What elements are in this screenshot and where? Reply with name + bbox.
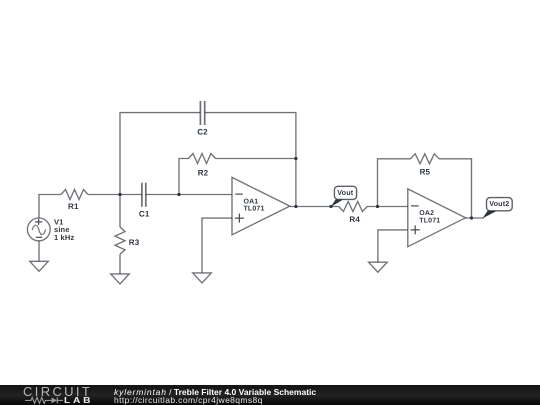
svg-text:Vout: Vout bbox=[337, 188, 353, 197]
svg-text:C2: C2 bbox=[197, 127, 208, 136]
svg-text:1 kHz: 1 kHz bbox=[54, 233, 74, 242]
svg-text:C1: C1 bbox=[139, 210, 150, 219]
svg-text:Vout2: Vout2 bbox=[489, 199, 509, 208]
svg-text:R3: R3 bbox=[129, 238, 140, 247]
svg-text:R4: R4 bbox=[349, 215, 360, 224]
svg-text:OA1: OA1 bbox=[244, 198, 259, 205]
svg-text:R1: R1 bbox=[68, 202, 79, 211]
svg-text:TL071: TL071 bbox=[244, 206, 265, 213]
svg-text:TL071: TL071 bbox=[419, 217, 440, 224]
svg-text:R2: R2 bbox=[198, 169, 209, 178]
svg-text:R5: R5 bbox=[420, 167, 431, 176]
svg-text:OA2: OA2 bbox=[419, 210, 434, 217]
